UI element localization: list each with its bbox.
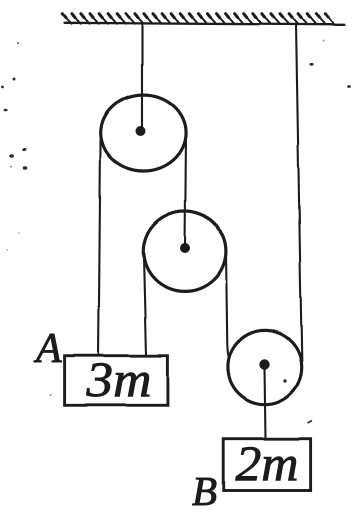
svg-text:A: A [33,326,62,372]
wire: string from P2 right tangent down to pulley P3 [226,253,229,359]
block A box (3m) [65,356,168,406]
axle dot of pulley P2 [180,243,190,253]
svg-text:2m: 2m [236,435,299,491]
block B box (2m) [224,439,311,491]
axle dot of pulley P3 [259,359,269,369]
wire: support string ceiling to top pulley [141,24,143,128]
wire: left string from P1 down to block A [99,133,101,356]
wire: long right string from ceiling down to P3 right tangent [296,24,302,366]
ceiling line [64,23,345,25]
scan specks [1,40,351,424]
svg-text:3m: 3m [85,351,151,407]
wire: right string from P1 down to pulley P2 axle [185,134,186,247]
wire: string from P2 left tangent down to block A [143,252,146,356]
svg-text:B: B [192,468,217,512]
wire: hanger from P3 axle down to block B [265,367,266,439]
pulley P1 (top, fixed to ceiling) [101,95,186,171]
axle dot of pulley P1 [136,126,146,136]
pulley P2 (middle, movable) [143,211,226,291]
pulley P3 (bottom, movable) [228,330,302,404]
